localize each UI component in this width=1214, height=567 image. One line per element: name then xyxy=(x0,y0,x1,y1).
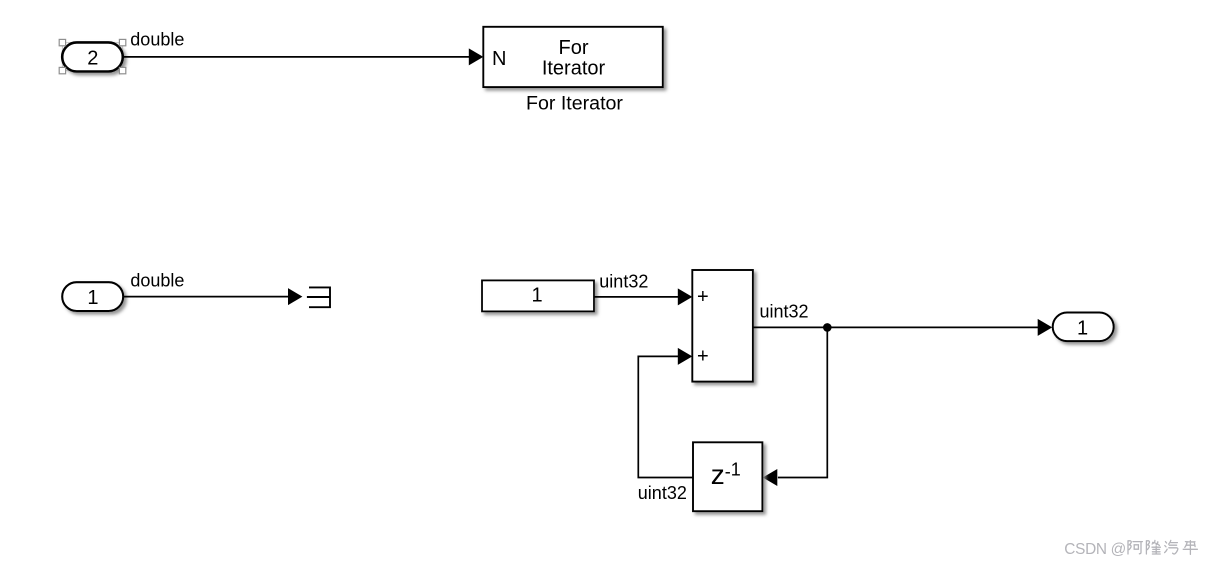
svg-text:double: double xyxy=(130,30,184,50)
svg-text:CSDN @: CSDN @ xyxy=(1064,541,1126,558)
svg-text:For: For xyxy=(559,37,589,59)
svg-text:For Iterator: For Iterator xyxy=(526,93,623,115)
svg-text:1: 1 xyxy=(87,287,98,309)
svg-text:uint32: uint32 xyxy=(638,483,687,503)
svg-text:double: double xyxy=(130,271,184,291)
svg-text:1: 1 xyxy=(1077,317,1088,339)
svg-text:2: 2 xyxy=(87,47,98,69)
svg-text:+: + xyxy=(697,286,709,308)
svg-text:uint32: uint32 xyxy=(760,301,809,321)
svg-text:1: 1 xyxy=(531,285,542,307)
svg-text:+: + xyxy=(697,346,709,368)
svg-text:N: N xyxy=(492,48,506,70)
svg-text:Iterator: Iterator xyxy=(542,58,606,80)
svg-text:uint32: uint32 xyxy=(599,272,648,292)
